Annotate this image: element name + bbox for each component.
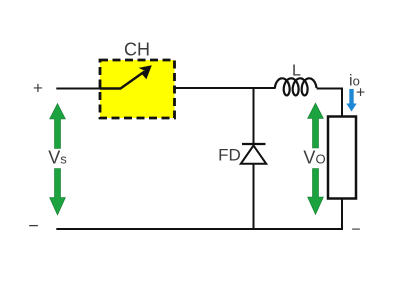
switch arrowhead <box>139 65 152 79</box>
wire diode to bottom rail <box>253 164 255 229</box>
wire top-left from + terminal to box <box>56 88 100 90</box>
wire right vertical into load <box>341 88 343 118</box>
Vo down arrow <box>308 169 324 215</box>
svg-text:FD: FD <box>218 146 241 165</box>
svg-text:−: − <box>28 216 39 236</box>
wire diode branch (node to diode) <box>253 88 255 144</box>
svg-text:−: − <box>351 222 360 239</box>
wire box to inductor <box>175 87 276 89</box>
svg-text:L: L <box>292 63 301 80</box>
svg-text:+: + <box>356 85 365 102</box>
Vs up arrow <box>50 104 66 149</box>
io current arrow (blue) <box>346 89 356 112</box>
svg-text:+: + <box>33 79 43 98</box>
Vo up arrow <box>308 103 324 148</box>
diode FD cathode bar <box>242 143 266 145</box>
switch lever <box>100 72 145 89</box>
load resistor box <box>328 117 356 199</box>
bottom rail wire <box>56 228 343 230</box>
wire load bottom to bottom rail <box>341 199 343 231</box>
switch CH highlight box <box>100 60 175 118</box>
Vs down arrow <box>50 169 66 216</box>
svg-text:CH: CH <box>124 40 150 60</box>
diode FD triangle <box>241 146 266 164</box>
inductor L coil <box>275 78 317 95</box>
wire inductor to right corner <box>317 88 342 90</box>
